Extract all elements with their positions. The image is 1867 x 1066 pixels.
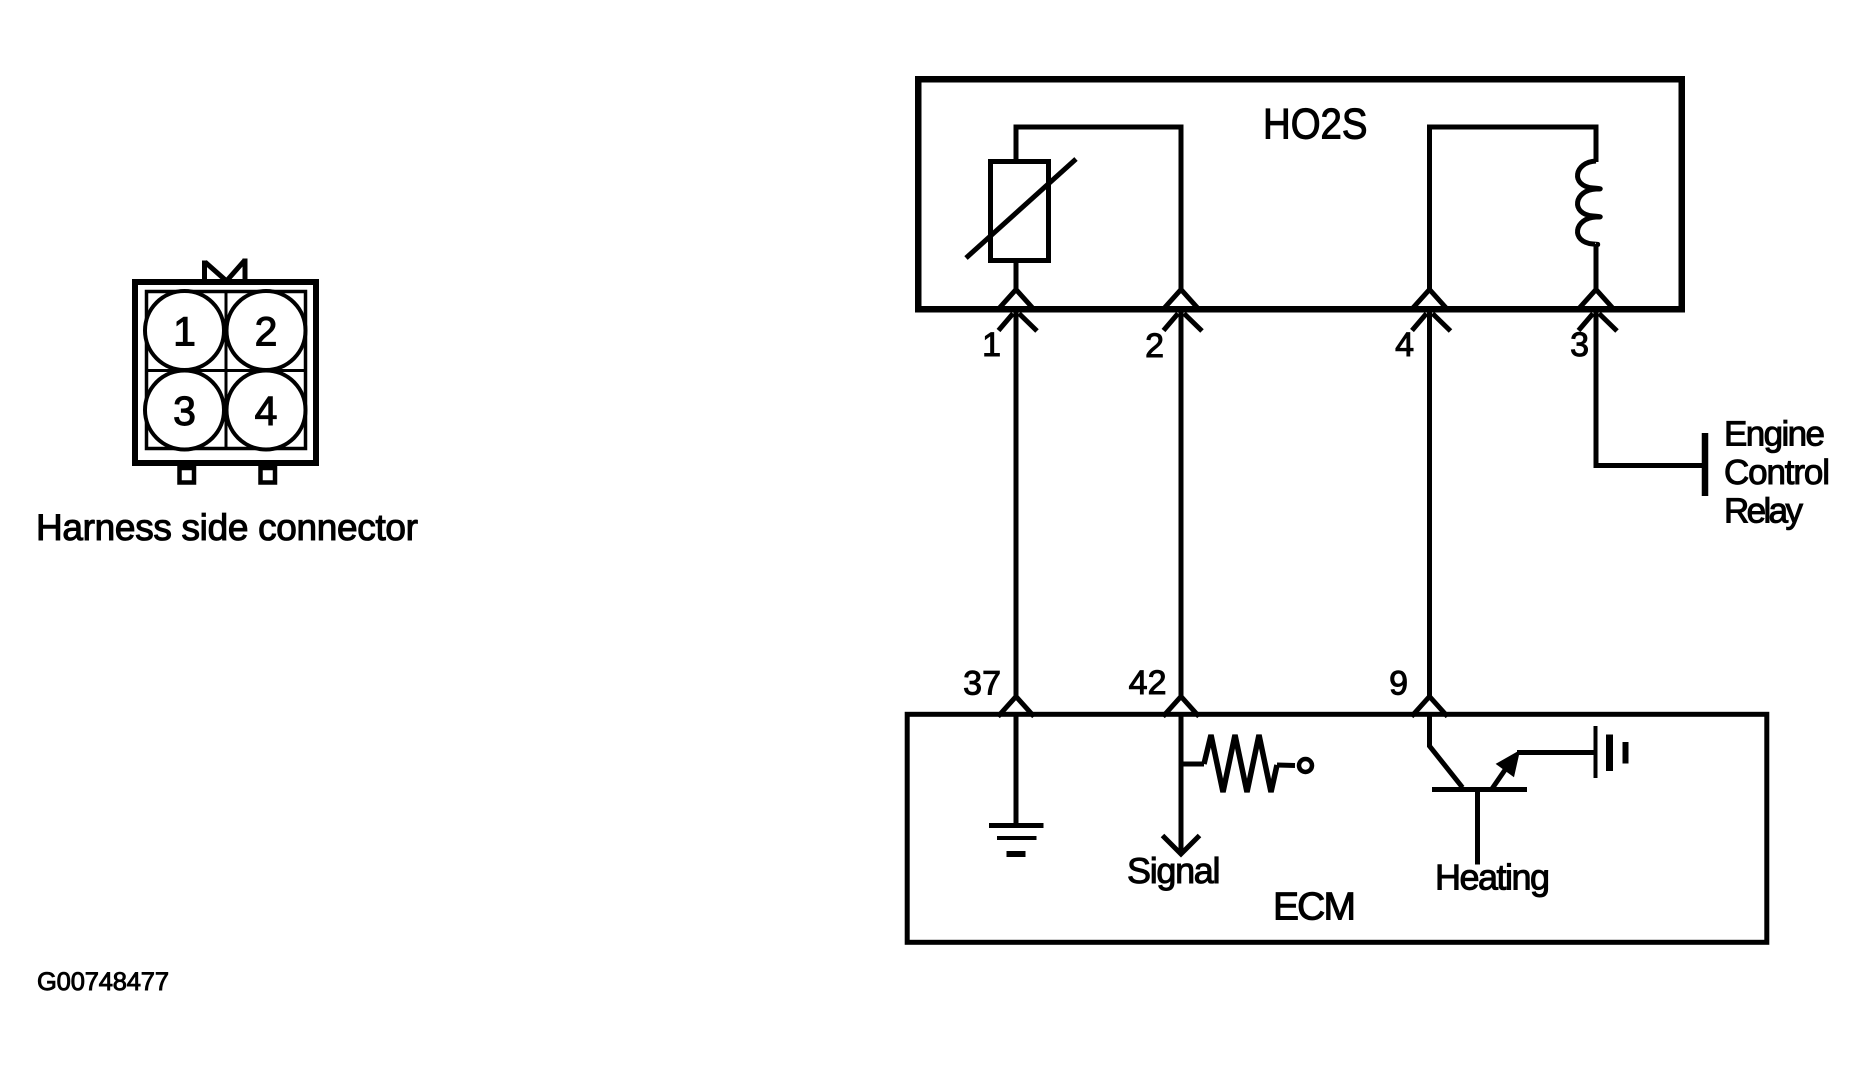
transistor lead down — [1475, 790, 1480, 865]
wire: coil bottom to pin 3 — [1594, 244, 1599, 292]
connector pin 3 arrow barbs — [1579, 314, 1618, 332]
wire: pin 4 to ECM pin 9 — [1427, 312, 1432, 697]
wire: resistor to test point — [1277, 763, 1295, 769]
connector cavity 3 — [145, 371, 224, 450]
svg-text:ECM: ECM — [1273, 886, 1356, 929]
harness connector mounting tab right — [261, 468, 276, 483]
engine control relay terminal bar — [1702, 433, 1709, 496]
connector pin 2 arrow barbs — [1164, 314, 1203, 332]
wire: pin 37 to ground — [1014, 717, 1019, 826]
svg-text:G00748477: G00748477 — [37, 968, 169, 996]
svg-text:3: 3 — [1570, 326, 1589, 364]
HO2S box — [918, 79, 1682, 309]
svg-text:2: 2 — [1145, 327, 1164, 365]
sensor element ZrO2 cell (variable resistor body) — [991, 162, 1049, 261]
wire: top horizontal left loop — [1014, 125, 1182, 130]
svg-text:Signal: Signal — [1127, 850, 1221, 891]
connector cavity 1 — [145, 291, 224, 370]
wire: pin 4 vertical inside HO2S — [1427, 127, 1432, 292]
rotated ground / supply bars — [1594, 726, 1598, 778]
ECM box — [907, 714, 1767, 942]
wire: emitter to internal supply — [1517, 750, 1595, 755]
connector pin 2 (HO2S) tent — [1163, 290, 1199, 310]
ECM pin 42 tent — [1163, 697, 1199, 717]
harness connector inner shell — [147, 292, 306, 449]
transistor emitter line — [1492, 767, 1508, 790]
wire: pin 42 signal with arrow — [1179, 717, 1184, 852]
sensor element diagonal (variable) — [966, 159, 1076, 258]
svg-text:2: 2 — [255, 309, 278, 355]
wire: pin 2 to ECM pin 42 — [1179, 312, 1184, 697]
svg-text:Heating: Heating — [1435, 857, 1550, 898]
svg-text:4: 4 — [1395, 326, 1414, 364]
wire: sensor bottom to pin 1 — [1014, 260, 1019, 292]
connector pin 3 (HO2S) tent — [1578, 290, 1614, 310]
wire: sensor top to node — [1014, 127, 1019, 162]
transistor emitter arrowhead — [1497, 752, 1519, 777]
connector cavity 4 — [227, 371, 306, 450]
svg-text:1: 1 — [173, 309, 196, 355]
svg-text:37: 37 — [963, 665, 1001, 703]
svg-text:3: 3 — [173, 388, 196, 434]
pull-up resistor zigzag — [1204, 735, 1277, 792]
harness connector outer shell — [135, 282, 316, 463]
wire: top horizontal right loop — [1427, 125, 1596, 130]
svg-text:Engine: Engine — [1724, 415, 1825, 454]
svg-text:9: 9 — [1389, 665, 1408, 703]
svg-text:4: 4 — [255, 388, 278, 434]
ECM pin 37 tent — [998, 697, 1034, 717]
connector pin 4 (HO2S) tent — [1412, 290, 1448, 310]
svg-text:1: 1 — [982, 326, 1001, 364]
wire: pin 1 to ECM pin 37 — [1014, 312, 1019, 697]
heater coil — [1578, 161, 1601, 245]
svg-text:HO2S: HO2S — [1263, 101, 1368, 149]
connector pin 1 arrow barbs — [999, 314, 1038, 332]
svg-text:Control: Control — [1724, 453, 1830, 492]
signal arrowhead — [1163, 836, 1200, 855]
transistor base line — [1432, 787, 1527, 792]
test point circle — [1299, 759, 1312, 772]
wire: pin 2 vertical inside HO2S — [1179, 125, 1184, 293]
ECM pin 9 tent — [1412, 697, 1448, 717]
svg-text:Harness side connector: Harness side connector — [36, 507, 418, 548]
wire: pull-up branch — [1181, 762, 1204, 767]
wire: coil top lead — [1594, 125, 1599, 163]
connector pin 1 (HO2S) tent — [998, 290, 1034, 310]
svg-text:42: 42 — [1129, 664, 1167, 702]
harness connector mounting tab left — [180, 468, 195, 483]
ground symbol (pin 37) — [989, 823, 1044, 828]
harness connector keying tab (M shape) — [205, 259, 246, 284]
svg-text:Relay: Relay — [1724, 492, 1804, 531]
harness connector divider cross — [147, 292, 306, 449]
connector pin 4 arrow barbs — [1412, 314, 1451, 332]
wire: pin 3 to engine control relay — [1596, 312, 1702, 466]
connector cavity 2 — [227, 291, 306, 370]
wire: pin 9 to transistor — [1430, 717, 1463, 788]
